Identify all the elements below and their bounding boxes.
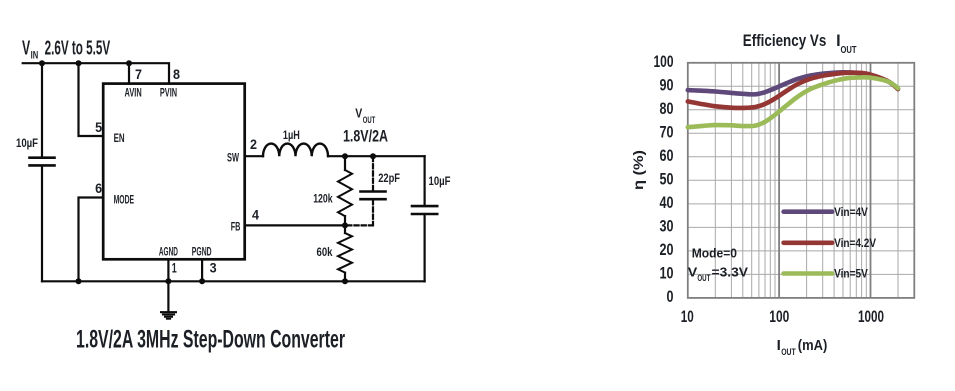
chart title <box>743 31 857 56</box>
junction R2-GND <box>342 278 348 284</box>
svg-text:1000: 1000 <box>858 307 884 326</box>
wire SW pin2 to inductor <box>245 155 263 157</box>
svg-text:Vin=4.2V: Vin=4.2V <box>834 236 876 250</box>
junction AGND-GND <box>165 278 171 284</box>
svg-text:Mode=0: Mode=0 <box>692 245 737 260</box>
svg-text:=3.3V: =3.3V <box>712 265 749 280</box>
svg-text:FB: FB <box>231 221 241 233</box>
svg-text:7: 7 <box>135 66 142 82</box>
junction FB node <box>342 222 348 228</box>
svg-text:EN: EN <box>114 133 125 145</box>
wire PGND pin3 <box>201 259 203 281</box>
svg-text:(mA): (mA) <box>798 337 828 354</box>
ground symbol <box>160 311 177 313</box>
svg-text:η (%): η (%) <box>630 150 646 190</box>
wire EN to VIN <box>79 63 104 136</box>
svg-text:OUT: OUT <box>841 44 857 56</box>
svg-text:AVIN: AVIN <box>125 87 142 99</box>
capacitor C2 plates <box>412 206 437 214</box>
svg-text:10: 10 <box>660 264 674 283</box>
capacitor C1 10uF input: top lead <box>41 63 43 156</box>
svg-text:PVIN: PVIN <box>160 87 177 99</box>
resistor R2 60k: top lead <box>344 225 346 233</box>
svg-text:90: 90 <box>660 76 674 95</box>
capacitor C2 10uF output: top lead <box>424 156 426 205</box>
svg-text:10µF: 10µF <box>16 136 38 150</box>
svg-text:MODE: MODE <box>114 194 135 206</box>
resistor R1 bottom lead <box>344 216 346 225</box>
inductor L1 1uH <box>263 144 328 157</box>
resistor R1 120k zigzag <box>338 170 352 216</box>
svg-text:6: 6 <box>95 180 102 196</box>
svg-text:AGND: AGND <box>159 246 178 258</box>
svg-text:20: 20 <box>660 240 674 259</box>
legend line Vin=5V <box>784 271 833 276</box>
svg-text:60k: 60k <box>317 245 333 259</box>
svg-text:V: V <box>688 265 698 280</box>
junction VIN-EN <box>76 60 82 66</box>
svg-text:120k: 120k <box>313 192 333 206</box>
wire VIN rail <box>23 63 169 83</box>
svg-text:100: 100 <box>769 307 789 326</box>
x tick labels <box>681 307 884 326</box>
wire FB <box>245 224 345 226</box>
svg-text:2: 2 <box>250 136 257 152</box>
svg-text:30: 30 <box>660 217 674 236</box>
svg-text:1.8V/2A 3MHz Step-Down Convert: 1.8V/2A 3MHz Step-Down Converter <box>76 326 345 354</box>
svg-text:OUT: OUT <box>697 273 710 283</box>
svg-text:PGND: PGND <box>192 246 212 258</box>
curve Vin=4.2V dark red <box>688 73 898 108</box>
resistor R2 bottom lead <box>344 273 346 282</box>
junction VOUT-C3 <box>370 153 376 159</box>
capacitor C1 bottom lead <box>41 167 43 282</box>
chart grid horizontals <box>688 86 915 274</box>
svg-text:Efficiency Vs: Efficiency Vs <box>743 31 827 50</box>
chart grid minor verticals <box>715 63 898 298</box>
chart plot border <box>688 63 915 298</box>
node VOUT label <box>343 107 388 146</box>
capacitor C2 bottom lead <box>424 215 426 281</box>
IC U1 step-down converter body <box>103 84 245 260</box>
wire MODE to GND <box>79 198 104 282</box>
wire ground rail bottom <box>42 280 425 282</box>
svg-text:5: 5 <box>95 119 102 135</box>
svg-text:70: 70 <box>660 123 674 142</box>
capacitor C1 plates <box>30 158 55 166</box>
svg-text:Vin=4V: Vin=4V <box>834 205 868 219</box>
svg-text:60: 60 <box>660 146 674 165</box>
curve Vin=5V green <box>688 77 898 127</box>
resistor R2 60k zigzag <box>338 233 352 273</box>
svg-text:4: 4 <box>252 206 259 222</box>
svg-text:SW: SW <box>227 152 239 164</box>
legend line Vin=4V <box>784 209 833 214</box>
junction PGND-GND <box>199 278 205 284</box>
capacitor C3 22pF dashed top lead <box>372 157 374 191</box>
resistor R1 120k: top lead <box>344 156 346 170</box>
wire AGND pin1 down to ground <box>167 259 169 312</box>
chart grid major decade lines <box>779 63 870 298</box>
svg-text:Vin=5V: Vin=5V <box>834 267 868 281</box>
node VIN label <box>22 37 111 61</box>
capacitor C3 plates <box>361 192 386 200</box>
annotation VOUT=3.3V <box>688 265 749 284</box>
svg-text:0: 0 <box>667 287 674 306</box>
junction VOUT-R1 <box>342 153 348 159</box>
svg-text:22pF: 22pF <box>378 171 400 185</box>
curve Vin=4V purple <box>688 72 898 94</box>
svg-text:1µH: 1µH <box>283 128 300 142</box>
x axis title IOUT (mA) <box>777 337 828 358</box>
svg-text:1.8V/2A: 1.8V/2A <box>343 127 388 145</box>
y tick labels <box>654 52 674 306</box>
svg-text:1: 1 <box>172 260 177 276</box>
svg-text:8: 8 <box>173 66 180 82</box>
svg-text:OUT: OUT <box>363 115 376 125</box>
capacitor C3 dashed bottom lead <box>345 200 373 225</box>
svg-text:100: 100 <box>654 52 674 71</box>
junction MODE-GND <box>76 278 82 284</box>
wire VOUT rail <box>328 155 425 157</box>
svg-text:V: V <box>355 107 363 121</box>
svg-text:10: 10 <box>681 307 694 326</box>
wire AVIN stub pin7 <box>128 63 130 83</box>
svg-text:2.6V to 5.5V: 2.6V to 5.5V <box>45 37 111 59</box>
junction VIN-AVIN <box>126 60 132 66</box>
svg-text:40: 40 <box>660 193 674 212</box>
svg-text:10µF: 10µF <box>429 174 451 188</box>
legend line Vin=4.2V <box>784 241 833 246</box>
junction VIN-C1 <box>39 60 45 66</box>
svg-text:V: V <box>22 37 31 59</box>
svg-text:3: 3 <box>210 260 217 276</box>
svg-text:80: 80 <box>660 99 674 118</box>
svg-text:OUT: OUT <box>781 347 796 358</box>
svg-text:50: 50 <box>660 170 674 189</box>
svg-text:IN: IN <box>31 50 39 62</box>
